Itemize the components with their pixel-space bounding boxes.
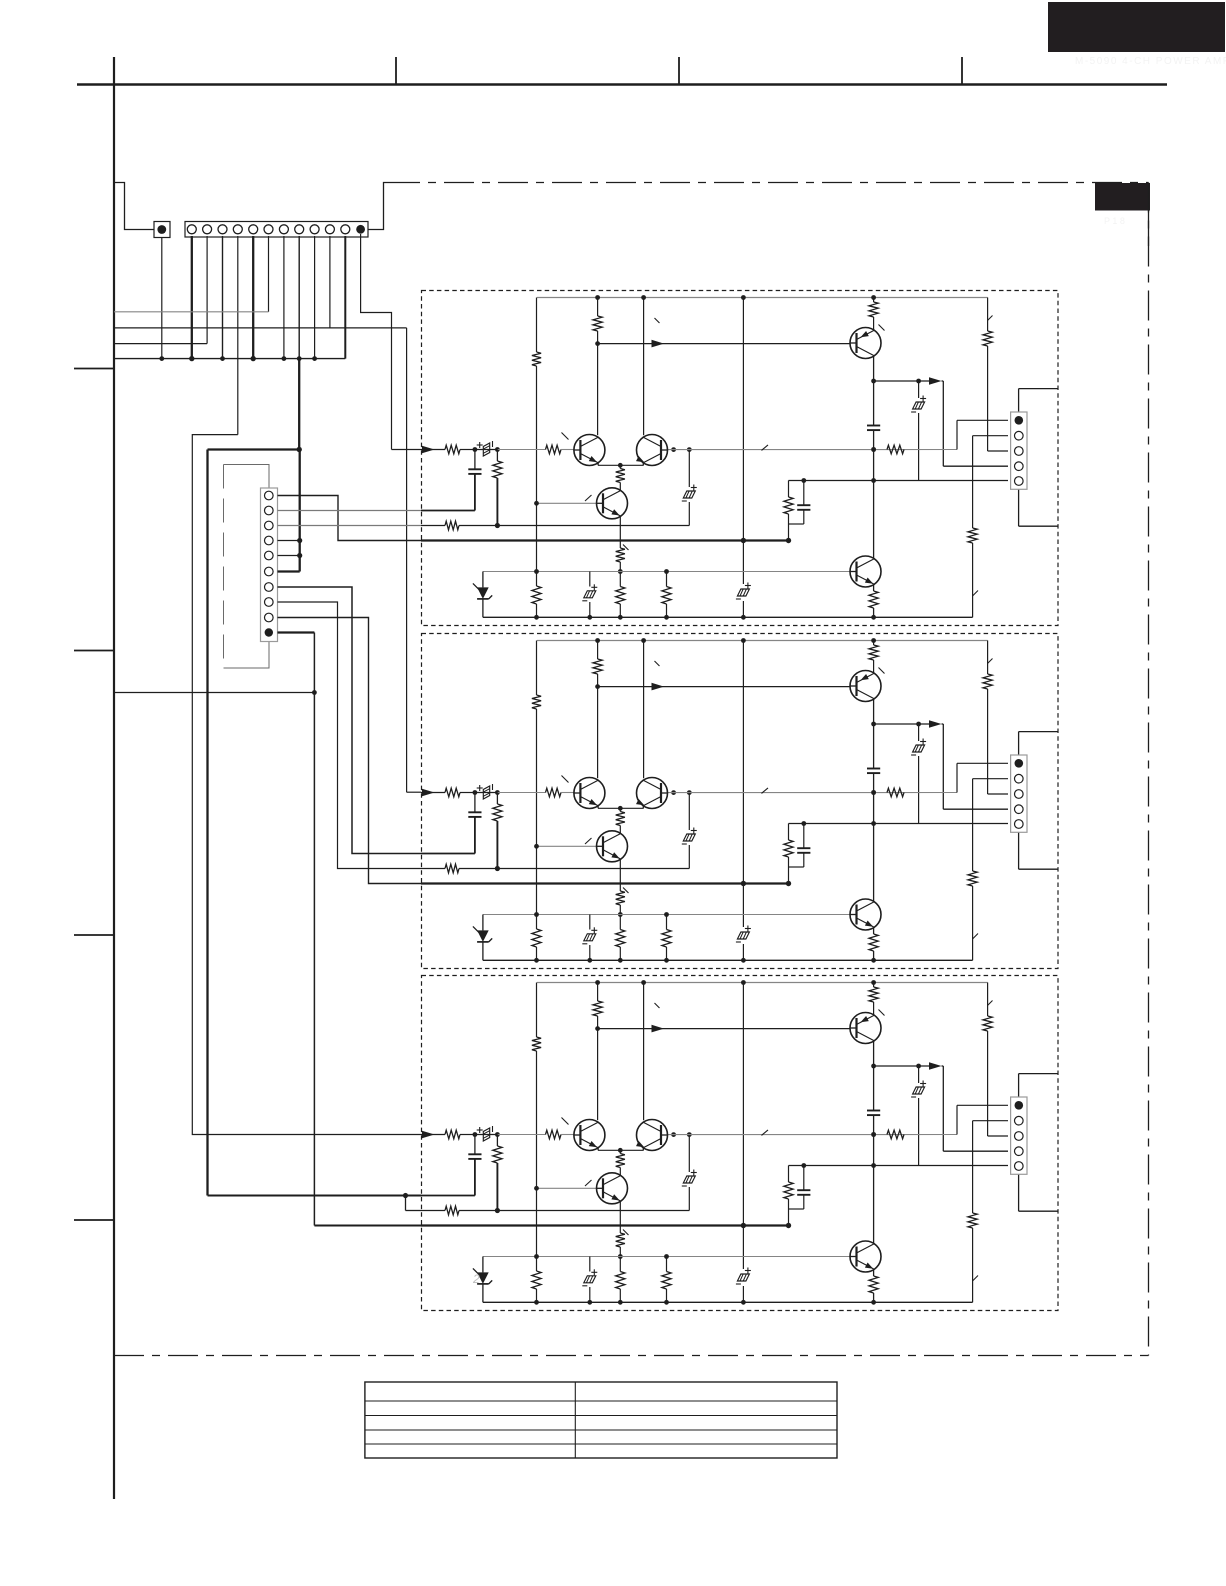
frame tick T2 [678, 57, 680, 85]
net border y343 [114, 343, 207, 345]
net bus y358 [114, 358, 345, 360]
connector CN-A shield pin box [154, 222, 170, 238]
net border y312 [114, 311, 269, 313]
connector CN-A body [185, 222, 368, 238]
wire pin8 drop [298, 236, 300, 359]
connector CN-B body [261, 488, 278, 642]
connector CN-A pin 12 [356, 225, 365, 234]
wire pin2 drop [206, 236, 208, 344]
connector CN-B pin 10 [265, 628, 273, 636]
notes table [365, 1382, 837, 1458]
frame tick L3 [74, 934, 114, 936]
svg-text:P 1 8: P 1 8 [1104, 216, 1125, 226]
frame tick T3 [961, 57, 963, 85]
wire CN-B p7 [278, 587, 422, 854]
wire ch3 input feed [192, 435, 421, 1135]
wire ch2 input feed [406, 328, 408, 792]
wire pin4 drop [237, 236, 239, 435]
wire pin6 drop [268, 236, 270, 312]
svg-text:M-5090 4-CH POWER AMP: M-5090 4-CH POWER AMP [1075, 56, 1226, 67]
wire pin10 drop [329, 236, 331, 328]
wire CN-B p2 [278, 510, 422, 512]
black page-number box [1095, 183, 1150, 211]
wire pin12 route [361, 234, 392, 450]
wire thick cross [208, 448, 300, 450]
wire thick to CN-B [299, 450, 301, 572]
wire thick left column [206, 450, 208, 1196]
net border y328 [114, 327, 407, 329]
wire pin3 drop [222, 236, 224, 359]
wire border to CN-A shield [114, 183, 154, 230]
net border y693 [114, 692, 314, 694]
wire pin7 drop [283, 236, 285, 359]
channel 3 amplifier circuit [421, 976, 1058, 1311]
wire CN-B p9 [278, 618, 422, 884]
frame tick L1 [74, 368, 114, 370]
svg-text:2: 2 [472, 1272, 480, 1286]
wire pin9 drop [314, 236, 316, 359]
connector CN-B bracket [224, 465, 270, 489]
wire CN-B p6 stub [278, 570, 300, 572]
wire CN-A to board outline [368, 183, 390, 230]
channel 1 amplifier circuit [421, 291, 1058, 626]
frame tick T1 [395, 57, 397, 85]
board outline dash-dot right [1148, 183, 1150, 1356]
wire pin11 drop [344, 236, 346, 359]
wire CN-B p1 [278, 496, 422, 541]
page frame top rule [77, 83, 1167, 85]
wire ch1 input feed [392, 449, 422, 451]
board outline dash-dot top [390, 182, 1149, 184]
wire ch3 feed branch [405, 1196, 407, 1211]
wire pin5 drop [252, 236, 254, 359]
wire CN-B p5 stub [278, 555, 300, 557]
channel 2 amplifier circuit [421, 634, 1058, 969]
wire CN-B p8 [278, 602, 422, 869]
frame tick L2 [74, 650, 114, 652]
board outline dash-dot bottom [114, 1355, 1149, 1357]
connector CN-A shield pin [157, 225, 166, 234]
page frame left rule [113, 57, 115, 1499]
wire CN-B p10 thick [278, 631, 315, 633]
black title box [1048, 2, 1225, 52]
wire CN-B p4 stub [278, 540, 300, 542]
wire CN-B p3 [278, 525, 422, 527]
wire shield pin drop [161, 238, 163, 359]
connector CN-B pins 1-9 [265, 491, 274, 500]
wire thick pin8 drop [298, 359, 300, 450]
wire pin1 drop [191, 236, 193, 359]
frame tick L4 [74, 1219, 114, 1221]
wire ch3 feed lower [208, 1195, 422, 1197]
connector CN-A pins 1-11 [187, 225, 196, 234]
